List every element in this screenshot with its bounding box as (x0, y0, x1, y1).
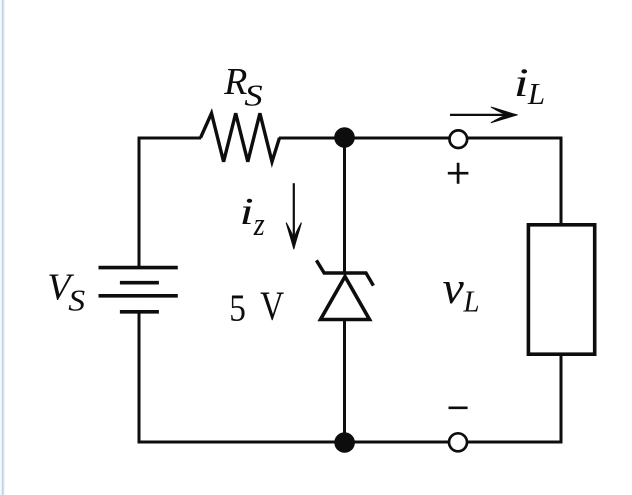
label + (448, 163, 469, 184)
node A (top junction dot) (334, 127, 355, 148)
label 5 V (229, 282, 284, 329)
wire middle branch lower (343, 320, 346, 444)
wire right vertical upper (560, 137, 563, 224)
wire bottom-left (battery minus down) (138, 312, 141, 444)
wire top horizontal left segment (138, 137, 201, 140)
svg-text:i: i (240, 190, 254, 232)
zener diode triangle (321, 277, 370, 320)
resistor R_S (201, 113, 280, 161)
wire top-left (from Vs plus to resistor) (138, 137, 141, 268)
load resistor box (528, 225, 594, 354)
wire middle branch upper (343, 137, 346, 273)
svg-text:5: 5 (229, 286, 246, 329)
svg-text:V: V (260, 282, 284, 328)
svg-text:L: L (463, 285, 480, 319)
battery V_S (99, 268, 178, 312)
svg-text:S: S (244, 79, 262, 113)
svg-text:z: z (253, 206, 265, 243)
arrow i_z (286, 183, 301, 249)
svg-text:S: S (68, 284, 85, 318)
svg-text:L: L (527, 76, 545, 111)
node B (bottom junction dot) (334, 432, 355, 453)
wire top horizontal right segment (279, 137, 562, 140)
svg-text:v: v (443, 264, 465, 313)
label i_z (240, 190, 265, 242)
label v_L (443, 264, 480, 319)
left page border stripe (0, 0, 5, 495)
svg-text:i: i (514, 61, 529, 105)
wire right vertical lower (560, 354, 563, 443)
wire bottom horizontal (138, 441, 563, 444)
label minus (449, 406, 468, 409)
label R_S (223, 61, 263, 113)
zener diode cathode bar (316, 260, 373, 285)
terminal bottom (open circle) (449, 433, 467, 451)
label V_S (47, 266, 85, 318)
arrow i_L (450, 107, 517, 122)
label i_L (514, 61, 545, 111)
terminal top (open circle) (450, 130, 468, 148)
